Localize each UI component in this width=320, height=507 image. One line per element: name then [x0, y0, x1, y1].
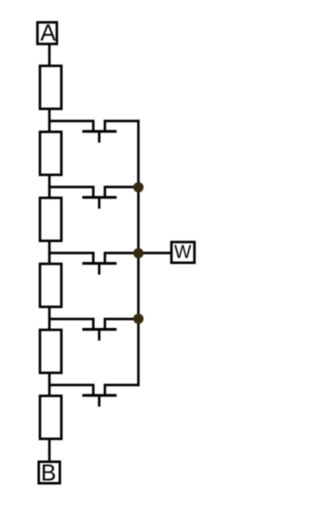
- svg-text:W: W: [174, 242, 191, 262]
- wire wiper bus: [137, 120, 139, 386]
- resistor R6: [40, 396, 61, 439]
- wire R4 to R5: [48, 307, 50, 330]
- terminal A: [37, 20, 56, 46]
- svg-text:A: A: [40, 20, 56, 46]
- wire R6 to B: [48, 439, 50, 462]
- resistor R2: [40, 132, 61, 175]
- wire R5 to R6: [48, 373, 50, 396]
- node junction tap4: [133, 314, 143, 324]
- node junction tap3: [133, 248, 143, 258]
- wire A to R1: [48, 44, 50, 66]
- terminal B: [39, 460, 60, 486]
- wire R1 to R2: [48, 109, 50, 132]
- resistor R1: [40, 66, 61, 109]
- resistor R3: [40, 198, 61, 241]
- svg-text:B: B: [41, 460, 56, 486]
- wire R2 to R3: [48, 175, 50, 198]
- transistor Q3: [49, 253, 138, 275]
- wire bus to W: [138, 252, 171, 254]
- transistor Q5: [49, 385, 138, 407]
- transistor Q1: [49, 121, 138, 143]
- transistor Q4: [49, 319, 138, 341]
- terminal W: [171, 242, 194, 263]
- transistor Q2: [49, 187, 138, 209]
- resistor R5: [40, 330, 61, 373]
- node junction tap2: [133, 182, 143, 192]
- resistor R4: [40, 264, 61, 307]
- wire R3 to R4: [48, 241, 50, 264]
